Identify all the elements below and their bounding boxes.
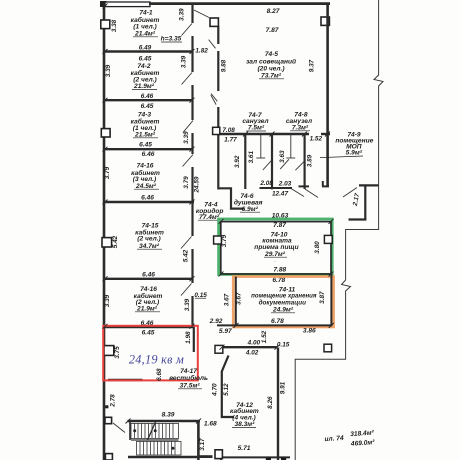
svg-text:6.78: 6.78 <box>271 318 284 325</box>
svg-text:21.4м²: 21.4м² <box>134 30 156 37</box>
svg-text:2.78: 2.78 <box>110 394 117 408</box>
svg-text:3.67: 3.67 <box>236 292 243 305</box>
dim 9.91 <box>279 381 286 394</box>
partition 74-3/74-16 <box>104 148 193 150</box>
dim 0.15b <box>277 341 290 348</box>
svg-text:7.88: 7.88 <box>273 267 286 274</box>
corridor 74-4 labels <box>196 202 224 221</box>
dim 3.39 left 74-16b <box>104 294 111 307</box>
svg-text:6.68: 6.68 <box>156 368 163 381</box>
svg-text:7.87: 7.87 <box>266 27 279 34</box>
underline 21.4 <box>133 37 182 42</box>
underline 37.5 <box>178 388 202 390</box>
dim 1.98 <box>185 331 192 344</box>
svg-text:74-15: 74-15 <box>142 222 159 229</box>
summary area labels <box>324 429 375 449</box>
underline 21.9 <box>132 89 157 91</box>
svg-text:34.7м²: 34.7м² <box>139 243 160 250</box>
room 74-10 column east <box>324 235 332 243</box>
door swings of left rooms <box>181 24 193 296</box>
dim 3.79 green left <box>221 234 228 247</box>
stair upper flight <box>131 422 179 440</box>
dim 2.03 <box>278 180 292 187</box>
room 74-2 labels <box>131 55 160 90</box>
dim 4.02 <box>245 349 259 356</box>
dim 3.80 green right <box>314 241 321 254</box>
svg-text:5.97: 5.97 <box>219 328 232 335</box>
svg-text:6.46: 6.46 <box>141 194 154 201</box>
dim 2.17 <box>352 192 362 207</box>
property boundary thin line <box>295 0 383 460</box>
underline 7.3 <box>290 130 310 132</box>
svg-text:2.92: 2.92 <box>209 318 223 325</box>
partition 74-2/74-3 <box>104 99 193 101</box>
svg-text:8.27: 8.27 <box>267 8 280 15</box>
svg-text:3.79: 3.79 <box>183 176 190 189</box>
svg-text:6.78: 6.78 <box>272 277 285 284</box>
svg-text:10.63: 10.63 <box>272 212 289 219</box>
dim 6.49 <box>139 44 152 51</box>
partition 74-15/74-16b <box>104 278 193 280</box>
room 74-5 east wall <box>326 3 329 187</box>
svg-text:(2 чел.): (2 чел.) <box>137 236 160 243</box>
svg-text:6.45: 6.45 <box>142 330 155 337</box>
svg-text:6.45: 6.45 <box>139 55 152 62</box>
svg-text:1.82: 1.82 <box>195 47 208 54</box>
partition 74-16/74-15 <box>104 201 194 204</box>
dim 3.61 <box>248 151 255 164</box>
underline 38.3 <box>232 426 256 428</box>
room 74-5 column NW <box>210 18 218 26</box>
svg-text:73.7м²: 73.7м² <box>261 72 282 79</box>
corridor door swings top <box>194 10 217 105</box>
svg-text:4.00: 4.00 <box>247 339 261 346</box>
room 74-11 west wall <box>235 277 237 325</box>
red highlight rectangle <box>103 326 198 381</box>
underline 77.4 <box>198 219 221 221</box>
stair entry door swing <box>113 423 125 433</box>
dim 9.37 <box>309 59 316 72</box>
svg-text:9.88: 9.88 <box>221 59 228 72</box>
svg-text:1.98: 1.98 <box>185 331 192 344</box>
MOP room 74-9 labels <box>335 132 373 157</box>
svg-text:5.42: 5.42 <box>112 235 119 248</box>
svg-text:3.39: 3.39 <box>104 294 111 307</box>
dim 152 vertical <box>261 330 268 343</box>
dim 3.75 <box>114 346 121 359</box>
column bottom 74-12 <box>215 450 222 459</box>
dim 3.63 <box>279 150 286 163</box>
green highlight rectangle room 74-10 <box>219 219 333 274</box>
room 74-11 labels <box>209 286 317 335</box>
room 74-5 bottom wall <box>219 133 330 135</box>
room 74-10 column west <box>214 236 222 244</box>
dim 5.12 <box>223 383 230 396</box>
underline 21.5 <box>133 137 158 139</box>
vestibule right wall with chamfer <box>222 356 234 418</box>
room 74-5 labels <box>246 8 296 79</box>
svg-text:3.39: 3.39 <box>183 131 190 144</box>
shower room west wall column <box>213 127 220 134</box>
svg-text:74-17: 74-17 <box>180 368 197 375</box>
room 74-3 labels <box>131 103 160 148</box>
svg-text:74-2: 74-2 <box>137 63 151 70</box>
wc labels 74-8 <box>286 112 312 132</box>
svg-text:3.39: 3.39 <box>105 64 112 77</box>
svg-text:документации: документации <box>259 298 306 306</box>
wc partition 74-8/MOP <box>304 134 306 189</box>
svg-text:3.75: 3.75 <box>114 346 121 359</box>
dim 0.15 <box>194 292 207 299</box>
svg-text:3.17: 3.17 <box>199 438 206 451</box>
svg-text:3.79: 3.79 <box>104 166 111 179</box>
stairs block <box>128 421 213 460</box>
svg-text:h=3.35: h=3.35 <box>161 36 182 43</box>
dim 3.79 right 74-16 <box>183 176 190 189</box>
room 74-5 column NE <box>321 17 329 25</box>
MOP door swing <box>343 188 357 198</box>
shower room 74-6 walls <box>219 134 245 209</box>
dim 3.39 right of 74-1 <box>179 8 186 21</box>
corridor upper left wall (74-5 west wall) <box>217 26 219 190</box>
svg-text:77.4м²: 77.4м² <box>199 214 220 221</box>
dim 5.42 left <box>112 235 119 248</box>
room 74-16 labels <box>131 151 160 201</box>
svg-text:74-16: 74-16 <box>137 162 154 169</box>
svg-text:8.39: 8.39 <box>162 411 175 418</box>
stair lower flight <box>137 441 182 455</box>
svg-text:3.79: 3.79 <box>221 234 228 247</box>
svg-text:9.91: 9.91 <box>279 381 286 394</box>
dim 6.46 under 74-2 <box>141 93 154 100</box>
room 74-12 labels <box>230 402 259 452</box>
svg-text:3.87: 3.87 <box>319 291 326 304</box>
underline 7.5 <box>246 130 266 132</box>
svg-text:3.39: 3.39 <box>179 8 186 21</box>
svg-text:8.26: 8.26 <box>267 396 274 409</box>
dimension tick marks <box>103 4 334 424</box>
svg-text:1.52: 1.52 <box>310 136 323 143</box>
dim 6.68 <box>156 368 163 381</box>
dim 9.88 <box>221 59 228 72</box>
wall 4.00 under corridor <box>222 346 277 348</box>
underline 29.7 <box>264 256 287 258</box>
shower room 74-6 labels <box>234 193 263 213</box>
wc labels 74-7 <box>242 112 268 132</box>
svg-text:3.80: 3.80 <box>314 241 321 254</box>
wc bottom walls <box>260 181 330 189</box>
underline 6.9 <box>240 211 260 213</box>
svg-text:6.46: 6.46 <box>142 271 155 278</box>
vestibule 74-17 labels <box>162 368 217 428</box>
svg-text:6.46: 6.46 <box>142 151 155 158</box>
dim 3.39 left 74-2 <box>105 64 112 77</box>
dim 3.67 right <box>236 292 243 305</box>
svg-text:3.89: 3.89 <box>306 154 313 167</box>
dim 3.39 right 74-3 <box>183 131 190 144</box>
svg-text:24.9м²: 24.9м² <box>272 306 294 313</box>
dim 5.42 right <box>183 249 190 262</box>
svg-text:3.92: 3.92 <box>234 155 241 168</box>
room 74-11 east wall <box>330 274 332 326</box>
svg-text:3.39: 3.39 <box>181 55 188 68</box>
red room bottom wall segment <box>108 379 143 382</box>
svg-text:21.5м²: 21.5м² <box>134 131 156 138</box>
top wall <box>149 2 330 5</box>
svg-text:24.59: 24.59 <box>194 176 201 193</box>
svg-text:.: . <box>274 258 275 263</box>
dim 1.77 <box>224 137 237 144</box>
svg-text:74-1: 74-1 <box>139 10 153 17</box>
wc partition 74-7/74-8 <box>271 134 273 189</box>
dim 3.39 right 74-2 <box>181 55 188 68</box>
svg-text:7.5м²: 7.5м² <box>248 125 265 132</box>
svg-text:5.42: 5.42 <box>183 249 190 262</box>
svg-text:(20 чел.): (20 чел.) <box>257 65 284 72</box>
svg-text:1.52: 1.52 <box>261 330 268 343</box>
right wall of left rooms with door gaps <box>193 3 194 352</box>
dim 12.47 <box>272 190 288 197</box>
dim 3.39 right 74-16b <box>184 298 191 311</box>
room 74-12 east wall <box>277 348 279 460</box>
dim 8.26 <box>267 396 274 409</box>
svg-text:6.46: 6.46 <box>141 93 154 100</box>
svg-text:2.08: 2.08 <box>259 180 273 187</box>
dim 3.79 left 74-16 <box>104 166 111 179</box>
dim 4.00 <box>247 339 261 346</box>
svg-text:1.77: 1.77 <box>224 137 237 144</box>
svg-text:38.3м²: 38.3м² <box>234 421 255 428</box>
svg-text:7.87: 7.87 <box>273 222 286 229</box>
dim 3.92 <box>234 155 241 168</box>
svg-text:6.9м²: 6.9м² <box>242 206 259 213</box>
svg-text:6.49: 6.49 <box>139 44 152 51</box>
outer left wall <box>103 2 106 460</box>
underline 73.7 <box>259 78 284 80</box>
svg-text:3.39: 3.39 <box>184 298 191 311</box>
blue handwriting 24,19 кв м <box>129 352 184 366</box>
underline 21.9b <box>135 311 160 313</box>
svg-text:21.9м²: 21.9м² <box>133 83 155 90</box>
dim 1.52 <box>310 136 323 143</box>
wall columns on left wall <box>101 20 114 460</box>
room 74-10 walls <box>221 222 331 274</box>
room 74-15 labels <box>135 222 164 278</box>
svg-text:21.9м²: 21.9м² <box>136 305 158 312</box>
svg-text:74-3: 74-3 <box>138 111 152 118</box>
dim 24.59 corridor vertical <box>194 176 201 193</box>
wc 74-8 stall <box>286 135 295 158</box>
svg-text:3.38: 3.38 <box>111 19 118 32</box>
stair dots <box>133 429 174 450</box>
svg-text:1.68: 1.68 <box>204 421 217 428</box>
svg-text:7.08: 7.08 <box>222 127 235 134</box>
dim 3.38 <box>111 19 118 32</box>
svg-text:6.45: 6.45 <box>139 141 152 148</box>
red room dims <box>142 330 155 337</box>
column east free <box>324 344 332 352</box>
room 74-1 labels <box>131 10 182 43</box>
wc door swings <box>263 159 318 197</box>
svg-text:3.86: 3.86 <box>303 327 316 334</box>
svg-text:5.9м²: 5.9м² <box>346 150 363 157</box>
bottom edge tick marks <box>266 458 286 460</box>
svg-text:37.5м²: 37.5м² <box>180 382 201 389</box>
dim 7.08 <box>222 127 235 134</box>
svg-text:7.3м²: 7.3м² <box>292 124 309 131</box>
underline 24.5 <box>134 188 159 190</box>
dim 1.82 top <box>195 47 208 54</box>
svg-text:2.03: 2.03 <box>278 180 292 187</box>
svg-text:5.71: 5.71 <box>238 445 251 452</box>
room 74-16b labels <box>134 286 163 327</box>
column at 4.00 wall west <box>215 345 223 353</box>
partition 74-1/74-2 <box>104 50 193 52</box>
svg-text:29.7м²: 29.7м² <box>264 251 286 258</box>
room 74-11 bottom wall <box>217 324 332 326</box>
top-left corner block <box>100 1 107 7</box>
partition 74-16b/red room <box>104 326 194 328</box>
svg-text:3.67: 3.67 <box>223 293 230 306</box>
dim 3.17 <box>199 438 206 451</box>
wall tick left wall vestibule <box>105 405 108 408</box>
dim 3.87 <box>319 291 326 304</box>
svg-text:ил. 74: ил. 74 <box>324 435 344 443</box>
svg-text:3.61: 3.61 <box>248 151 255 164</box>
svg-text:24,19 кв м: 24,19 кв м <box>129 352 184 366</box>
svg-text:74-5: 74-5 <box>265 51 279 58</box>
wc 74-7 stall <box>256 135 265 158</box>
svg-text:24.5м²: 24.5м² <box>135 183 157 190</box>
svg-text:зал совещаний: зал совещаний <box>246 57 296 65</box>
svg-text:3.63: 3.63 <box>279 150 286 163</box>
underline 5.9 with leader <box>320 156 363 158</box>
svg-text:вестибюль: вестибюль <box>169 374 208 382</box>
dim 2.08 <box>259 180 273 187</box>
room 74-10 labels <box>254 212 298 284</box>
room 74-12 west wall stubs <box>221 455 290 460</box>
stair landing line <box>131 439 179 441</box>
svg-text:кабинет: кабинет <box>131 16 160 24</box>
dim 3.67 left <box>223 293 230 306</box>
underline 24.9 <box>271 312 295 314</box>
dim 3.89 <box>306 154 313 167</box>
svg-text:4.70: 4.70 <box>212 383 219 397</box>
MOP east walls <box>349 185 379 219</box>
svg-text:12.47: 12.47 <box>272 190 288 197</box>
svg-text:6.45: 6.45 <box>141 103 154 110</box>
svg-text:5.12: 5.12 <box>223 383 230 396</box>
dim 2.78 <box>110 394 117 408</box>
svg-text:4.02: 4.02 <box>245 349 259 356</box>
orange highlight rectangle room 74-11 <box>233 277 333 327</box>
underline 34.7 <box>137 248 162 250</box>
top window band <box>105 2 150 7</box>
svg-text:9.37: 9.37 <box>309 59 316 72</box>
dim 4.70 <box>212 383 219 397</box>
